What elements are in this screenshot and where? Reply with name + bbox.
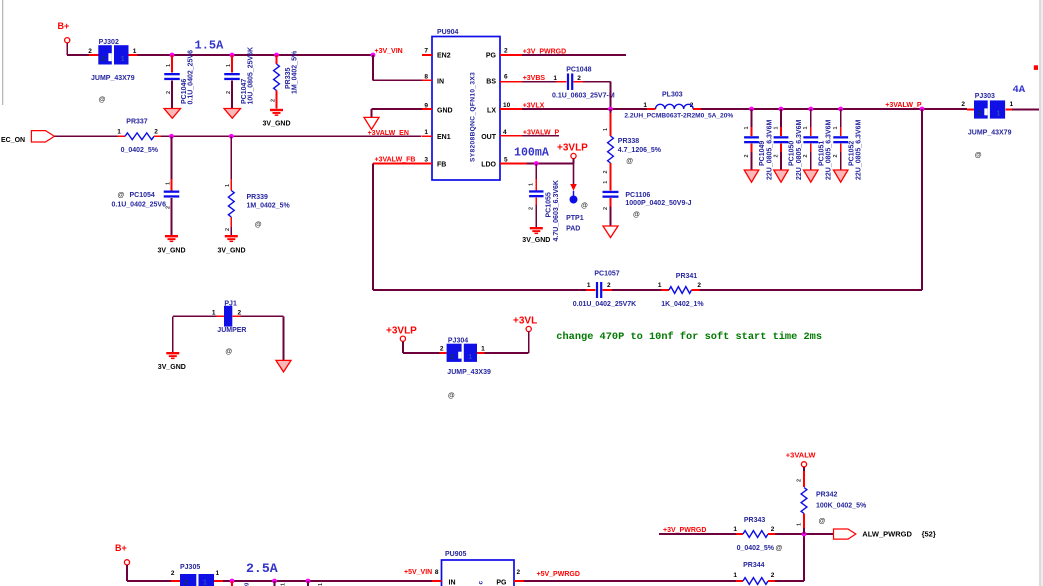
resistor PR335	[270, 50, 298, 108]
svg-text:2: 2	[440, 346, 444, 353]
svg-text:1: 1	[796, 523, 802, 526]
IC PU905	[432, 551, 524, 586]
svg-text:2: 2	[225, 228, 231, 231]
wire	[701, 108, 967, 110]
svg-text:change 470P to 10nf for soft s: change 470P to 10nf for soft start time …	[556, 331, 822, 343]
svg-text:@: @	[633, 212, 640, 219]
svg-text:PAD: PAD	[566, 226, 580, 233]
svg-text:0_0402_5%: 0_0402_5%	[737, 545, 775, 552]
svg-text:7: 7	[424, 48, 428, 55]
svg-text:2: 2	[88, 48, 92, 55]
svg-text:PJ305: PJ305	[180, 564, 200, 571]
svg-text:{52}: {52}	[922, 530, 936, 539]
capacitor PC1049	[744, 109, 773, 180]
net label +3V_PWRGD	[663, 527, 706, 534]
svg-text:22U_0805_6.3V6M: 22U_0805_6.3V6M	[766, 120, 773, 180]
wire	[1012, 109, 1039, 111]
wire	[700, 289, 923, 291]
svg-text:SY8208BQNC_QFN10_3X3: SY8208BQNC_QFN10_3X3	[470, 72, 477, 162]
svg-text:OUT: OUT	[481, 134, 497, 141]
svg-text:PC1052: PC1052	[848, 141, 855, 166]
svg-text:PC1054: PC1054	[130, 192, 155, 199]
net label +3V_VIN	[375, 48, 403, 55]
svg-text:PR344: PR344	[743, 562, 765, 569]
svg-text:@: @	[581, 203, 588, 210]
svg-text:1.5A: 1.5A	[195, 39, 225, 53]
svg-text:1: 1	[468, 354, 472, 361]
wire	[522, 81, 557, 83]
svg-text:1: 1	[603, 181, 609, 184]
junction	[802, 532, 807, 537]
svg-text:FB: FB	[437, 162, 446, 169]
svg-text:22U_0805_6.3V6M: 22U_0805_6.3V6M	[826, 120, 833, 180]
svg-text:PC1050: PC1050	[789, 141, 796, 166]
svg-text:1: 1	[216, 570, 220, 577]
wire	[372, 109, 423, 117]
net label +3VALW_FB	[375, 157, 416, 164]
svg-text:2: 2	[226, 91, 232, 94]
wire	[54, 135, 117, 137]
svg-text:0.1U_0603_25V7-M: 0.1U_0603_25V7-M	[552, 93, 615, 100]
svg-text:PC1106: PC1106	[625, 192, 650, 199]
svg-text:@: @	[776, 545, 783, 552]
power flag +3VL	[484, 315, 537, 353]
page border left	[2, 0, 3, 105]
svg-text:3V_GND: 3V_GND	[522, 237, 550, 244]
svg-text:0.1U_0402_25V6: 0.1U_0402_25V6	[112, 201, 167, 208]
svg-text:PR337: PR337	[126, 119, 148, 126]
svg-text:+5V_PWRGD: +5V_PWRGD	[537, 571, 580, 578]
capacitor PC1051	[803, 109, 832, 180]
wire	[522, 135, 559, 137]
ground 3V_GND	[218, 235, 246, 255]
ground	[364, 117, 379, 129]
svg-text:2: 2	[184, 580, 188, 586]
capacitor PC1046	[164, 50, 194, 109]
svg-text:1000P_0402_50V9-J: 1000P_0402_50V9-J	[625, 200, 691, 207]
svg-text:PG: PG	[486, 53, 497, 60]
svg-text:22U_0805_6.3V6M: 22U_0805_6.3V6M	[796, 120, 803, 180]
wire	[240, 316, 283, 360]
svg-text:JUMP_43X39: JUMP_43X39	[447, 369, 491, 376]
net label +5V_PWRGD	[537, 571, 580, 578]
ground	[804, 170, 819, 182]
svg-text:1: 1	[587, 282, 591, 289]
svg-text:+3VALW_FB: +3VALW_FB	[375, 157, 416, 164]
wire	[232, 581, 308, 586]
wire	[775, 534, 804, 581]
svg-text:@: @	[975, 152, 982, 159]
output port ALW_PWRGD	[834, 529, 936, 539]
svg-text:PJ302: PJ302	[99, 39, 119, 46]
off-page marker	[1034, 65, 1038, 70]
svg-text:1M_0402_5%: 1M_0402_5%	[292, 50, 299, 94]
resistor PR338	[603, 109, 662, 191]
jumper PJ305	[171, 564, 223, 586]
svg-text:PG: PG	[496, 579, 507, 586]
net label +5V_VIN	[404, 569, 432, 576]
svg-text:1: 1	[997, 110, 1001, 117]
svg-text:1: 1	[166, 64, 172, 67]
svg-text:2: 2	[978, 110, 982, 117]
svg-text:1: 1	[773, 126, 779, 129]
wire	[373, 289, 586, 291]
svg-text:2: 2	[101, 56, 105, 63]
svg-text:2: 2	[166, 91, 172, 94]
junction	[169, 134, 234, 139]
capacitor PC1048	[552, 66, 615, 99]
svg-text:2: 2	[450, 354, 454, 361]
power flag +3VLP	[557, 143, 588, 164]
wire	[373, 55, 422, 80]
svg-text:PJ303: PJ303	[975, 93, 995, 100]
svg-text:PR343: PR343	[744, 517, 766, 524]
svg-text:PL303: PL303	[662, 91, 683, 98]
svg-text:@: @	[118, 192, 125, 199]
power flag +3VLP	[386, 325, 439, 353]
power flag +3VALW	[786, 451, 817, 472]
svg-text:1: 1	[165, 182, 171, 185]
current label 100mA	[514, 147, 549, 160]
resistor PR344	[733, 562, 775, 585]
svg-text:1: 1	[424, 129, 428, 136]
svg-text:2: 2	[796, 479, 802, 482]
svg-text:1: 1	[643, 102, 647, 109]
svg-text:EC_ON: EC_ON	[1, 137, 25, 144]
svg-text:6: 6	[504, 74, 508, 81]
node stub labels	[244, 583, 325, 586]
inductor PL303	[624, 91, 733, 119]
ground	[774, 170, 789, 182]
wire	[775, 533, 833, 535]
svg-text:+3VALW_P: +3VALW_P	[885, 102, 922, 109]
svg-text:PR342: PR342	[816, 492, 838, 499]
wire	[67, 54, 89, 56]
net label +3VALW_P	[885, 102, 922, 109]
junction	[608, 107, 613, 112]
svg-text:IN: IN	[449, 579, 456, 586]
resistor PR342	[796, 471, 867, 534]
svg-text:PR339: PR339	[247, 194, 269, 201]
svg-text:c: c	[478, 581, 485, 585]
svg-text:PU905: PU905	[445, 551, 467, 558]
op-amp U1 IC PU904	[422, 29, 536, 180]
svg-text:0.01U_0402_25V7K: 0.01U_0402_25V7K	[573, 301, 636, 308]
junction	[534, 161, 539, 166]
svg-text:LDO: LDO	[481, 162, 496, 169]
current label 2.5A	[246, 561, 278, 576]
svg-text:10U_0805_25V6K: 10U_0805_25V6K	[248, 47, 255, 105]
svg-text:PTP1: PTP1	[566, 215, 584, 222]
svg-text:B+: B+	[58, 21, 70, 31]
svg-text:+3V_VIN: +3V_VIN	[375, 48, 403, 55]
svg-text:1: 1	[529, 183, 535, 186]
wire	[659, 533, 736, 535]
svg-text:PU904: PU904	[437, 29, 459, 36]
svg-text:+3VL: +3VL	[513, 315, 537, 326]
svg-text:@: @	[626, 158, 633, 165]
input port EC_ON	[1, 131, 54, 144]
svg-text:PR341: PR341	[676, 273, 698, 280]
ground	[164, 109, 181, 119]
svg-text:100K_0402_5%: 100K_0402_5%	[816, 502, 867, 509]
svg-text:4.7_1206_5%: 4.7_1206_5%	[618, 147, 662, 154]
svg-text:2: 2	[771, 572, 775, 579]
svg-text:1: 1	[225, 184, 231, 187]
svg-text:EN2: EN2	[437, 53, 451, 60]
capacitor PC1057	[573, 270, 636, 308]
ground	[744, 170, 759, 182]
svg-text:8: 8	[424, 74, 428, 81]
power flag B+	[115, 543, 171, 581]
svg-text:4.7U_0603_6.3V6K: 4.7U_0603_6.3V6K	[553, 180, 560, 242]
svg-text:1: 1	[203, 580, 207, 586]
net label +3VBS	[523, 75, 546, 82]
ground 3V_GND	[158, 235, 186, 255]
ground 3V_GND	[158, 352, 186, 371]
ground	[276, 360, 291, 372]
note	[556, 331, 822, 343]
svg-text:1: 1	[744, 126, 750, 129]
svg-text:1: 1	[658, 282, 662, 289]
svg-text:1: 1	[803, 126, 809, 129]
svg-text:10: 10	[503, 102, 511, 109]
resistor PR341	[658, 273, 705, 308]
jumper PJ302	[88, 39, 137, 103]
svg-text:2: 2	[961, 101, 965, 108]
svg-text:2: 2	[773, 154, 779, 157]
svg-text:2: 2	[529, 207, 535, 210]
svg-text:3: 3	[424, 157, 428, 164]
svg-text:1: 1	[1010, 101, 1014, 108]
svg-text:0_0402_5%: 0_0402_5%	[121, 147, 159, 154]
wire	[138, 54, 374, 56]
svg-text:1: 1	[226, 64, 232, 67]
svg-text:1: 1	[212, 309, 216, 316]
svg-text:LX: LX	[487, 108, 496, 115]
net label +3VALW_EN	[368, 130, 409, 137]
power flag B+	[58, 21, 70, 55]
wire	[603, 181, 609, 184]
svg-text:1: 1	[117, 129, 121, 136]
svg-text:@: @	[225, 349, 232, 356]
current label 1.5A	[195, 39, 225, 53]
wire	[612, 289, 661, 291]
svg-text:+5V_VIN: +5V_VIN	[404, 569, 432, 576]
jumper PJ1	[212, 301, 247, 356]
svg-text:1M_0402_5%: 1M_0402_5%	[247, 202, 291, 209]
wire	[583, 82, 611, 109]
ground	[603, 226, 618, 238]
svg-text:22U_0805_6.3V6M: 22U_0805_6.3V6M	[856, 120, 863, 180]
svg-text:+3VALW: +3VALW	[786, 451, 817, 460]
ground	[833, 170, 848, 182]
svg-text:1: 1	[733, 572, 737, 579]
svg-text:PC1048: PC1048	[566, 66, 591, 73]
test point PTP1	[566, 164, 588, 233]
svg-text:GND: GND	[437, 108, 453, 115]
junction	[749, 107, 924, 112]
svg-text:2: 2	[165, 206, 171, 209]
svg-text:@: @	[99, 97, 106, 104]
wire	[223, 580, 432, 582]
svg-text:PC1055: PC1055	[546, 192, 553, 217]
svg-text:+3VALW_EN: +3VALW_EN	[368, 130, 409, 137]
svg-text:PC1051: PC1051	[818, 141, 825, 166]
wire	[161, 135, 422, 137]
svg-text:JUMP_43X79: JUMP_43X79	[91, 75, 135, 82]
svg-text:JUMPER: JUMPER	[217, 327, 246, 334]
jumper PJ303	[961, 93, 1013, 159]
resistor PR343	[733, 517, 782, 552]
capacitor PC1055	[529, 164, 561, 242]
svg-text:2: 2	[603, 170, 609, 173]
svg-text:IN: IN	[437, 79, 444, 86]
wire	[373, 164, 422, 291]
svg-text:0.1U_0402_25V6: 0.1U_0402_25V6	[188, 50, 195, 105]
wire	[173, 316, 217, 352]
capacitor PC1047	[224, 47, 254, 109]
wire	[524, 580, 736, 582]
capacitor PC1054	[112, 136, 180, 235]
net label +3V_PWRGD	[523, 48, 566, 55]
svg-text:100mA: 100mA	[514, 147, 549, 160]
svg-text:@: @	[819, 518, 826, 525]
svg-text:3V_GND: 3V_GND	[158, 248, 186, 255]
svg-text:2: 2	[154, 129, 158, 136]
svg-text:1: 1	[603, 128, 609, 131]
capacitor PC1050	[773, 109, 802, 180]
svg-text:2: 2	[270, 99, 276, 102]
svg-text:1: 1	[481, 346, 485, 353]
svg-text:PC1049: PC1049	[759, 141, 766, 166]
svg-text:8: 8	[435, 569, 439, 576]
svg-text:B+: B+	[115, 543, 127, 553]
ground 3V_GND	[522, 227, 550, 244]
net label +3VALW_P	[523, 129, 560, 136]
svg-text:2: 2	[833, 154, 839, 157]
svg-text:5: 5	[504, 157, 508, 164]
svg-text:1: 1	[733, 526, 737, 533]
svg-text:+3VLP: +3VLP	[557, 143, 588, 154]
resistor PR339	[225, 136, 290, 235]
capacitor PC1052	[833, 109, 862, 180]
current label 4A	[1013, 84, 1026, 96]
net label +3VLX	[523, 103, 545, 110]
junction	[230, 579, 311, 584]
svg-text:2: 2	[771, 526, 775, 533]
svg-text:2: 2	[171, 570, 175, 577]
junction	[170, 53, 376, 58]
svg-text:2: 2	[607, 282, 611, 289]
svg-text:2: 2	[697, 282, 701, 289]
wire	[522, 108, 647, 110]
svg-text:2.2UH_PCMB063T-2R2M0_5A_20%: 2.2UH_PCMB063T-2R2M0_5A_20%	[624, 112, 733, 119]
svg-text:1K_0402_1%: 1K_0402_1%	[661, 301, 704, 308]
svg-text:2: 2	[803, 154, 809, 157]
svg-text:g: g	[244, 583, 250, 586]
svg-text:2: 2	[517, 569, 521, 576]
svg-text:PJ304: PJ304	[448, 338, 468, 345]
svg-text:+3VLP: +3VLP	[386, 325, 417, 336]
svg-text:2: 2	[504, 48, 508, 55]
capacitor PC1106	[603, 191, 692, 226]
wire	[526, 163, 573, 165]
svg-text:2: 2	[238, 309, 242, 316]
svg-text:1: 1	[133, 48, 137, 55]
svg-text:2: 2	[603, 207, 609, 210]
svg-text:4A: 4A	[1013, 84, 1026, 96]
wire	[921, 109, 923, 290]
svg-text:3V_GND: 3V_GND	[218, 248, 246, 255]
svg-text:3V_GND: 3V_GND	[263, 121, 291, 128]
jumper PJ304	[439, 338, 491, 400]
svg-text:+3V_PWRGD: +3V_PWRGD	[663, 527, 706, 534]
wire	[522, 54, 626, 56]
svg-text:2: 2	[744, 154, 750, 157]
svg-text:JUMP_43X79: JUMP_43X79	[968, 130, 1012, 137]
svg-text:BS: BS	[486, 79, 496, 86]
svg-text:@: @	[448, 392, 455, 399]
ground	[224, 109, 241, 119]
svg-text:EN1: EN1	[437, 134, 451, 141]
svg-text:1: 1	[833, 126, 839, 129]
ground 3V_GND	[263, 109, 291, 128]
svg-text:PR338: PR338	[618, 138, 640, 145]
svg-text:1: 1	[121, 56, 125, 63]
resistor PR337	[117, 119, 161, 154]
svg-text:PC1057: PC1057	[594, 270, 619, 277]
svg-text:2.5A: 2.5A	[246, 561, 278, 576]
page border right	[1039, 0, 1043, 586]
svg-text:@: @	[255, 222, 262, 229]
svg-text:ALW_PWRGD: ALW_PWRGD	[862, 530, 912, 539]
svg-text:3V_GND: 3V_GND	[158, 364, 186, 371]
